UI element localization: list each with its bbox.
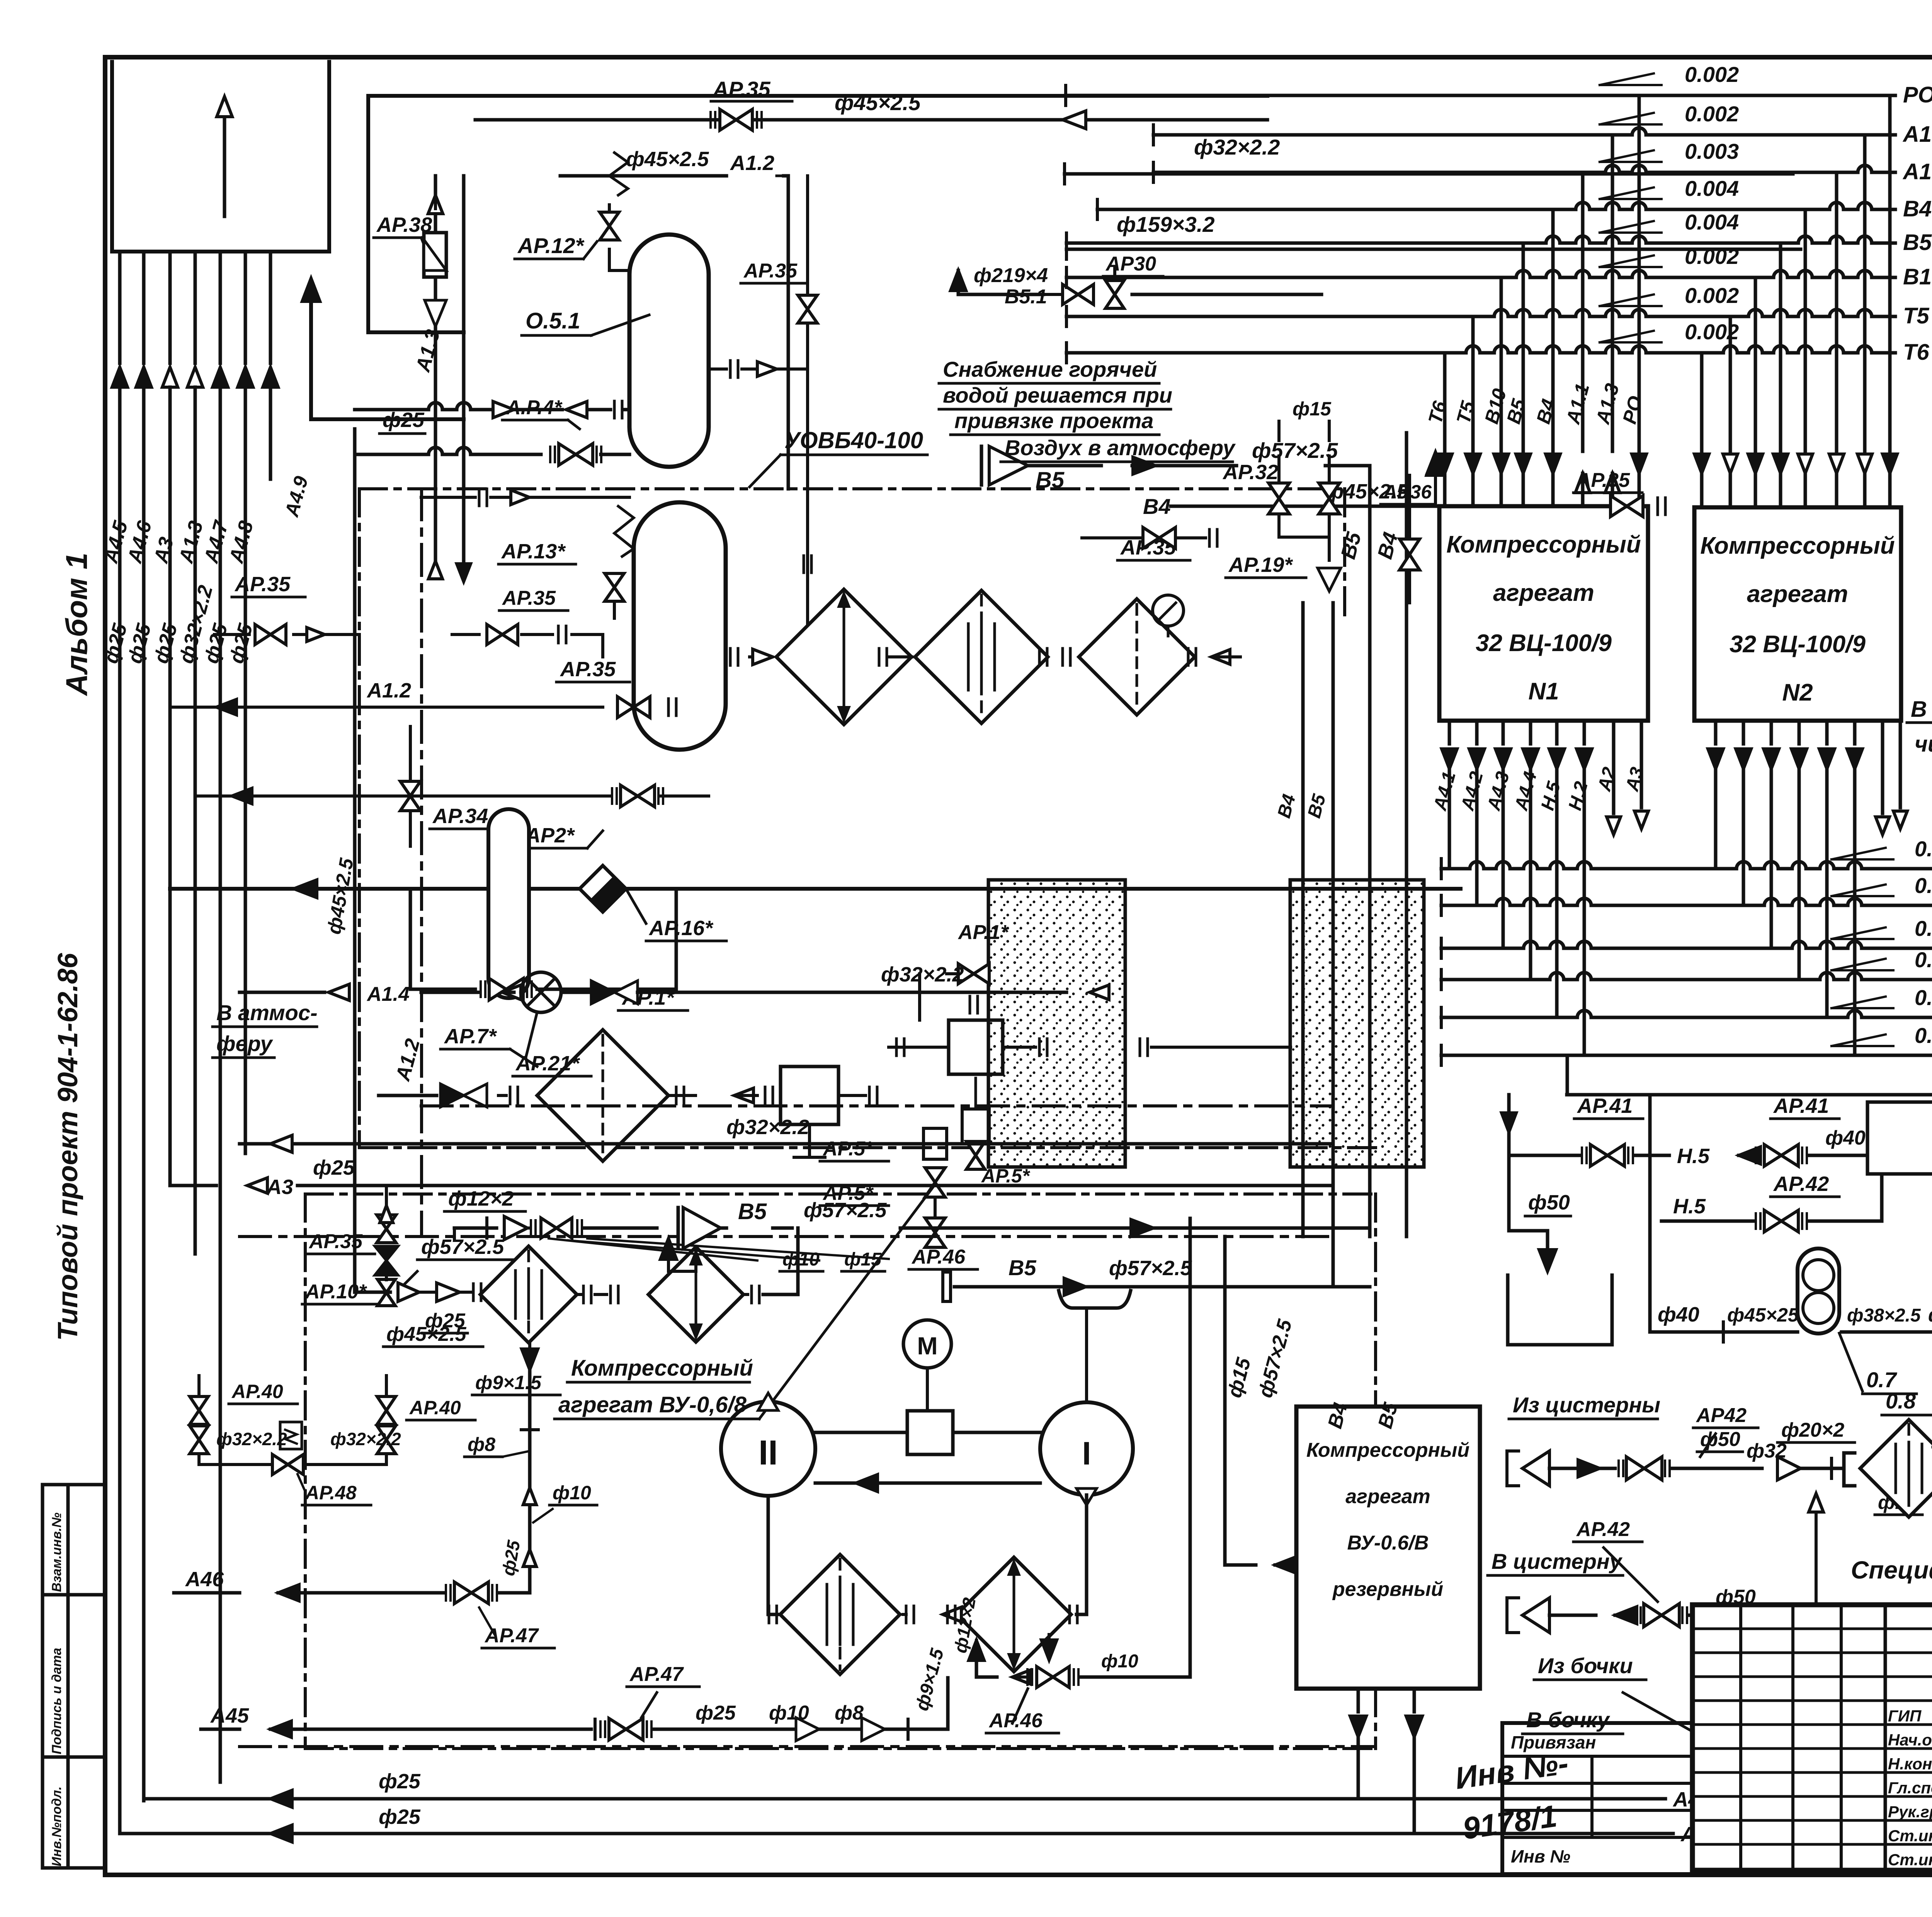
svg-text:Привязан: Привязан <box>1511 1732 1596 1752</box>
svg-text:ф50: ф50 <box>1528 1191 1570 1214</box>
wire atmo line <box>240 1135 1333 1152</box>
label AP.21 <box>513 1012 591 1076</box>
funnel 1 <box>1507 1428 1844 1486</box>
pump line L <box>1650 1249 1932 1342</box>
margin text vzam <box>49 1512 64 1592</box>
block reserve <box>1296 1407 1480 1689</box>
svg-text:резервный: резервный <box>1332 1578 1443 1601</box>
filter d2 <box>648 1228 798 1342</box>
labels f10 f15 AP46 <box>549 1238 978 1271</box>
svg-text:ф25: ф25 <box>425 1310 466 1332</box>
svg-text:А3: А3 <box>266 1175 293 1199</box>
svg-text:Инв №: Инв № <box>1511 1846 1570 1866</box>
wire B4 low2 <box>1333 1285 1370 1289</box>
valve AP.7 <box>379 1025 537 1107</box>
svg-text:АР.5*: АР.5* <box>822 1138 874 1160</box>
svg-text:ф25: ф25 <box>313 1156 355 1179</box>
svg-text:АР42: АР42 <box>1696 1404 1747 1427</box>
filter d1 <box>480 1246 618 1343</box>
svg-text:0.002: 0.002 <box>1685 244 1739 269</box>
svg-text:РО: РО <box>1903 82 1932 107</box>
text v atmosferu <box>213 1000 318 1058</box>
wire down AP46 <box>1012 1218 1190 1687</box>
svg-text:А1.2: А1.2 <box>730 151 774 175</box>
svg-text:ф9×1.5: ф9×1.5 <box>475 1372 542 1393</box>
valve A.P.4 <box>355 396 629 465</box>
text v cisternu <box>1488 1549 1623 1575</box>
svg-text:ф10: ф10 <box>1101 1651 1138 1672</box>
svg-text:А.Р.4*: А.Р.4* <box>505 396 563 419</box>
margin text inv <box>49 1786 64 1866</box>
circle I <box>1040 1402 1133 1505</box>
wire A1.2 dash <box>391 489 424 1237</box>
svg-text:феру: феру <box>216 1031 273 1056</box>
wire f159 <box>1066 212 1801 259</box>
label AP.47 b <box>627 1663 699 1718</box>
wire A46 <box>174 1568 530 1604</box>
wires B4B5 vert <box>1324 1400 1403 1431</box>
svg-text:ф20×2: ф20×2 <box>1781 1419 1844 1441</box>
label AP.48 <box>298 1474 371 1505</box>
label AP.47 a <box>479 1607 554 1648</box>
svg-text:ф25: ф25 <box>383 408 425 432</box>
svg-text:В атмос-: В атмос- <box>216 1000 318 1025</box>
small square low <box>781 1067 877 1157</box>
svg-text:АР.34: АР.34 <box>432 805 488 828</box>
wire izbochki <box>1534 1653 1646 1680</box>
svg-text:0.003: 0.003 <box>1685 139 1739 163</box>
svg-text:Из цистерны: Из цистерны <box>1513 1393 1660 1417</box>
valve AP.35 top <box>475 77 1182 130</box>
svg-text:0.002: 0.002 <box>1685 102 1739 126</box>
block N1 <box>1439 506 1648 721</box>
svg-text:А1.1: А1.1 <box>1902 159 1932 184</box>
wire B5 vert <box>1337 466 1370 1237</box>
svg-text:АР.19*: АР.19* <box>1228 553 1293 577</box>
wire f45 feed <box>323 429 390 1292</box>
svg-text:В канализацию: В канализацию <box>1911 697 1932 722</box>
svg-text:АР.46: АР.46 <box>911 1246 966 1268</box>
diag bochka <box>1623 1692 1719 1750</box>
svg-text:АР30: АР30 <box>1105 253 1156 275</box>
svg-text:I: I <box>1082 1435 1091 1471</box>
svg-text:АР.42: АР.42 <box>1576 1518 1630 1541</box>
svg-text:В4: В4 <box>1903 196 1932 221</box>
svg-text:ф15: ф15 <box>1293 398 1332 420</box>
valves AP40 pair <box>190 1376 475 1454</box>
svg-text:В цистерну: В цистерну <box>1492 1549 1623 1573</box>
heatex 0.8 <box>1844 1389 1932 1615</box>
label AP41 b <box>1770 1094 1839 1119</box>
valve AP.35 e <box>306 1186 396 1254</box>
valve AP.35 b2 <box>452 587 603 657</box>
wire vessel2 out <box>730 176 808 665</box>
left bus labels <box>99 518 258 666</box>
svg-text:ф38×2.5: ф38×2.5 <box>1847 1305 1921 1326</box>
svg-text:0.003: 0.003 <box>1915 873 1932 898</box>
text iz cisterny <box>1509 1393 1660 1419</box>
wire d2 top <box>660 1238 696 1271</box>
wire AP48 <box>199 1422 401 1475</box>
svg-text:ф32×2.2: ф32×2.2 <box>726 1116 809 1139</box>
svg-text:водой решается при: водой решается при <box>943 383 1172 407</box>
enclosure UOVB40-100 <box>359 427 1376 1148</box>
wire f219 arrow <box>951 264 1048 294</box>
wire A1.3 mid <box>412 176 464 564</box>
svg-text:АР36: АР36 <box>1383 481 1432 503</box>
svg-text:ф57×2.5: ф57×2.5 <box>1109 1257 1192 1280</box>
svg-text:ф32: ф32 <box>1928 1304 1932 1326</box>
dotted rect 2 <box>1290 880 1424 1167</box>
svg-text:N2: N2 <box>1782 679 1813 706</box>
svg-text:В5: В5 <box>738 1199 767 1224</box>
svg-text:АР2*: АР2* <box>525 824 575 847</box>
svg-text:Т5: Т5 <box>1903 303 1929 328</box>
svg-text:УОВБ40-100: УОВБ40-100 <box>784 427 923 453</box>
wire B5b vert <box>1274 603 1333 1287</box>
svg-text:Н.5: Н.5 <box>1677 1145 1710 1168</box>
label f25 low <box>422 1310 468 1333</box>
label AP42 c2 <box>1573 1518 1658 1602</box>
note spec <box>1851 1556 1932 1584</box>
svg-text:ф15: ф15 <box>844 1249 882 1270</box>
svg-text:0.006: 0.006 <box>1915 985 1932 1010</box>
svg-text:АР.48: АР.48 <box>304 1482 357 1504</box>
valve AP2 <box>195 785 709 848</box>
valve AP.16 <box>580 866 726 941</box>
N2 feed drops <box>1694 95 1897 507</box>
svg-text:ф219×4: ф219×4 <box>974 264 1048 287</box>
wire f45 arrow <box>1063 111 1267 129</box>
block N2 <box>1694 507 1901 721</box>
valve AP.35 riser <box>741 260 817 323</box>
circle II <box>721 1393 815 1496</box>
wire H5 AP41 <box>1592 1123 1619 1163</box>
svg-text:В бочку: В бочку <box>1526 1708 1611 1732</box>
svg-text:ф10: ф10 <box>553 1482 591 1504</box>
wire d2 loop <box>1049 1660 1121 1677</box>
funnel 2 <box>1507 1586 1932 1633</box>
inv no <box>1453 1746 1570 1846</box>
label f45x2.5 top <box>835 90 921 115</box>
svg-text:АР.1*: АР.1* <box>957 921 1009 944</box>
circle M <box>903 1320 951 1411</box>
stamp enclosure <box>112 62 329 252</box>
svg-text:АР.13*: АР.13* <box>501 540 566 563</box>
svg-text:А46: А46 <box>185 1568 224 1591</box>
svg-text:АР.35: АР.35 <box>234 573 291 596</box>
valve B5.1 <box>1005 253 1321 308</box>
svg-text:N1: N1 <box>1528 678 1559 705</box>
wire f32 low <box>634 1116 904 1148</box>
svg-text:В5.1: В5.1 <box>1005 286 1047 308</box>
stamp arrow <box>217 97 232 216</box>
svg-text:Альбом 1: Альбом 1 <box>60 553 94 696</box>
svg-text:В5: В5 <box>1903 230 1932 255</box>
title inner cols <box>1741 1605 1932 1870</box>
bus lines right <box>1066 62 1932 365</box>
check to vessel <box>355 401 629 418</box>
wire f40 drop <box>1566 1055 1569 1095</box>
svg-text:Ст.инж.: Ст.инж. <box>1888 1851 1932 1869</box>
title left rows <box>1692 1629 1932 1844</box>
N1 feed drops <box>1424 95 1647 506</box>
valve AP.34 <box>400 726 502 846</box>
svg-text:ф57×2.5: ф57×2.5 <box>804 1199 887 1222</box>
svg-text:0.003: 0.003 <box>1915 837 1932 861</box>
svg-text:32 ВЦ-100/9: 32 ВЦ-100/9 <box>1730 631 1866 658</box>
label AP42 <box>1770 1172 1839 1197</box>
wire A4.6 low <box>144 1770 1718 1811</box>
svg-text:АР.40: АР.40 <box>409 1397 461 1419</box>
wire f50 drop <box>1509 1155 1556 1271</box>
wire f25 mid <box>379 408 425 434</box>
svg-text:Компрессорный: Компрессорный <box>571 1356 753 1381</box>
svg-text:ф57×2.5: ф57×2.5 <box>421 1235 504 1259</box>
svg-text:АР.40: АР.40 <box>231 1381 283 1402</box>
svg-text:ф32×2.2: ф32×2.2 <box>881 963 964 986</box>
filter low left <box>537 1030 773 1161</box>
svg-text:А1.3: А1.3 <box>1902 122 1932 147</box>
svg-text:АР.32: АР.32 <box>1222 461 1278 484</box>
svg-text:ф57×2.5: ф57×2.5 <box>1252 438 1338 463</box>
svg-text:Из бочки: Из бочки <box>1538 1653 1633 1678</box>
AP41 valves row <box>1592 1163 1619 1163</box>
svg-text:АР.5*: АР.5* <box>981 1165 1031 1187</box>
AP42 pair low <box>1662 1619 1847 1754</box>
enclosure lower <box>305 1194 1376 1749</box>
svg-text:АР.41: АР.41 <box>1577 1094 1633 1118</box>
svg-text:Снабжение горячей: Снабжение горячей <box>943 357 1157 381</box>
label f15 ap32 <box>1279 398 1332 441</box>
wire A4.5 low <box>120 1805 1725 1846</box>
wire f12 line <box>444 1187 657 1240</box>
svg-text:II: II <box>759 1434 778 1472</box>
vessel NO2 <box>1867 1102 1932 1174</box>
left bus wires <box>120 479 245 1834</box>
label f15 c <box>1809 1468 1922 1615</box>
valve AP.13 <box>498 506 634 618</box>
margin text project <box>53 953 83 1341</box>
dotted rect 1 <box>988 880 1125 1167</box>
svg-text:0.004: 0.004 <box>1685 210 1739 234</box>
svg-text:Нач.отд.: Нач.отд. <box>1888 1731 1932 1749</box>
wire I down <box>1070 1495 1087 1623</box>
svg-text:АР.16*: АР.16* <box>648 917 714 940</box>
svg-text:ф8: ф8 <box>468 1434 495 1455</box>
svg-text:АР.47: АР.47 <box>629 1663 684 1686</box>
svg-text:М: М <box>917 1332 937 1360</box>
valve AP.12 <box>515 153 629 270</box>
svg-text:ф12×2: ф12×2 <box>448 1187 514 1210</box>
reserve feed B4 <box>1370 1237 1406 1264</box>
AP.5 valves left <box>820 1128 947 1247</box>
privyazan table <box>1502 1723 1692 1874</box>
svg-text:Гл.спец.: Гл.спец. <box>1888 1779 1932 1797</box>
snabzhenie text <box>939 357 1236 462</box>
valve AP.35 b <box>214 573 359 645</box>
svg-text:А1.4: А1.4 <box>366 983 410 1005</box>
wire A1.4 <box>240 963 1109 1012</box>
svg-text:АР.7*: АР.7* <box>444 1025 497 1048</box>
svg-text:Спецификацию оборудовиния и ар: Спецификацию оборудовиния и арматуры см.… <box>1851 1556 1932 1584</box>
svg-text:32 ВЦ-100/9: 32 ВЦ-100/9 <box>1476 630 1612 657</box>
wire II down <box>768 1496 777 1614</box>
svg-text:Компрессорный: Компрессорный <box>1446 531 1641 558</box>
svg-text:агрегат: агрегат <box>1493 580 1594 606</box>
wire H5 line <box>1502 1095 1867 1168</box>
svg-text:АР.21*: АР.21* <box>515 1052 580 1075</box>
square coupling <box>815 1411 1040 1454</box>
svg-text:В5: В5 <box>1036 468 1065 493</box>
svg-text:агрегат: агрегат <box>1747 581 1848 607</box>
wire B4 vert <box>1373 433 1406 1237</box>
valve AP.10 <box>302 1246 398 1306</box>
N2 bottom drops <box>1708 721 1907 1055</box>
fork symbol <box>1059 1291 1131 1402</box>
svg-text:0.002: 0.002 <box>1685 62 1739 87</box>
label 0.7 L <box>1839 1333 1917 1394</box>
wire H5 second <box>1662 1174 1882 1232</box>
svg-text:ф32×2.2: ф32×2.2 <box>330 1429 401 1449</box>
svg-text:ф45×25: ф45×25 <box>1727 1304 1799 1326</box>
pump line L2 <box>1839 1306 1932 1306</box>
wire B5 label <box>943 1255 1333 1301</box>
wire B5 f57 <box>981 438 1370 493</box>
svg-text:ф25: ф25 <box>696 1702 736 1724</box>
wire I-II arrow <box>815 1475 1040 1492</box>
svg-text:ф32×2.2: ф32×2.2 <box>216 1429 287 1449</box>
reserve drops <box>1350 1689 1422 1834</box>
svg-text:0.8: 0.8 <box>1886 1389 1916 1413</box>
svg-text:АР.41: АР.41 <box>1773 1094 1829 1118</box>
svg-text:В4: В4 <box>1143 494 1171 519</box>
svg-text:ф40: ф40 <box>1658 1303 1699 1326</box>
svg-text:ВУ-0.6/В: ВУ-0.6/В <box>1347 1532 1429 1554</box>
svg-text:АР.35: АР.35 <box>502 587 556 609</box>
svg-text:АР.35: АР.35 <box>743 260 798 282</box>
valve AP.35 c <box>172 658 676 718</box>
AP.32 valves <box>1222 456 1341 591</box>
svg-text:ф159×3.2: ф159×3.2 <box>1117 212 1215 236</box>
svg-text:Инв.№подл.: Инв.№подл. <box>49 1786 64 1866</box>
label f45 low <box>383 1323 483 1347</box>
svg-text:ф45×2.5: ф45×2.5 <box>626 148 709 171</box>
stamp drop wires <box>112 252 278 479</box>
svg-text:чистых стоков: чистых стоков <box>1915 731 1932 757</box>
svg-text:Рук.гр.: Рук.гр. <box>1888 1803 1932 1821</box>
label AP.19 <box>1226 553 1306 578</box>
svg-text:ф32×2.2: ф32×2.2 <box>1194 135 1280 159</box>
svg-text:ф40: ф40 <box>1825 1127 1866 1149</box>
label f57 low <box>402 1235 518 1287</box>
svg-text:Компрессорный: Компрессорный <box>1306 1439 1469 1461</box>
wire top from stamp <box>368 96 1267 332</box>
svg-text:АР.35: АР.35 <box>1576 469 1630 492</box>
label AP41 a <box>1574 1094 1643 1119</box>
svg-text:АР.12*: АР.12* <box>517 233 585 258</box>
arrow B5 up <box>1427 452 1444 506</box>
svg-text:А1.2: А1.2 <box>366 679 411 702</box>
svg-text:привязке проекта: привязке проекта <box>954 408 1153 433</box>
valve AP36 <box>1381 475 1435 603</box>
silencer B5 <box>678 1199 1370 1249</box>
svg-text:ф25: ф25 <box>379 1770 421 1793</box>
AP.1 cluster mid <box>889 921 1291 1187</box>
wire A4.9 <box>281 278 464 520</box>
svg-text:агрегат: агрегат <box>1345 1485 1430 1508</box>
wire v bochku <box>1522 1708 1623 1734</box>
svg-text:Н.контр.: Н.контр. <box>1888 1755 1932 1773</box>
title names <box>1888 1705 1932 1869</box>
wire dash mid <box>240 1235 1333 1238</box>
svg-text:0.006: 0.006 <box>1915 1023 1932 1048</box>
wire B4 B5 to reserve <box>1370 1238 1406 1263</box>
wire B5 low <box>951 1286 1370 1287</box>
label AP.46 b <box>986 1689 1059 1733</box>
tank left <box>1508 1275 1612 1345</box>
wire dash low <box>240 1745 1376 1748</box>
wire f9 vertical <box>464 1343 597 1593</box>
margin text album <box>60 553 94 696</box>
wire A3 <box>170 1156 1333 1199</box>
arrows under d2 <box>950 1596 1057 1677</box>
margin text podpis <box>49 1648 64 1754</box>
svg-text:Взам.инв.№: Взам.инв.№ <box>49 1512 64 1592</box>
svg-text:АР.42: АР.42 <box>1773 1172 1829 1196</box>
svg-text:В5: В5 <box>1009 1255 1036 1280</box>
pump L out <box>1839 1304 1932 1339</box>
wire A13 ends <box>429 561 471 582</box>
wire f15 b <box>1182 1298 1183 1376</box>
svg-text:ГИП: ГИП <box>1888 1707 1922 1725</box>
svg-text:0.003: 0.003 <box>1915 947 1932 972</box>
wire vessel1 out <box>709 361 808 378</box>
wire row 1287 <box>421 489 629 506</box>
wire f32x2.2 <box>1065 135 1793 184</box>
label f20x2 a <box>1777 1419 1855 1442</box>
svg-text:Воздух в атмосферу: Воздух в атмосферу <box>1005 435 1236 460</box>
chain into filter <box>398 1283 481 1301</box>
svg-text:О.5.1: О.5.1 <box>526 308 580 333</box>
svg-text:ф8: ф8 <box>835 1702 864 1724</box>
filter chain mid <box>776 556 1240 725</box>
svg-text:В10: В10 <box>1903 264 1932 289</box>
svg-text:Т6: Т6 <box>1903 340 1929 365</box>
vessel O.5.1 <box>522 235 709 467</box>
svg-text:Компрессорный: Компрессорный <box>1700 532 1895 559</box>
arrow into reserve <box>1225 1237 1296 1573</box>
svg-text:ф50: ф50 <box>1700 1428 1740 1451</box>
svg-text:АР.35: АР.35 <box>560 658 616 681</box>
vessel2 <box>634 502 726 750</box>
wire A1.2 label <box>560 148 788 489</box>
wire main lower <box>170 880 1461 898</box>
title block frame <box>1692 1605 1932 1870</box>
svg-text:агрегат ВУ-0,6/8: агрегат ВУ-0,6/8 <box>558 1392 747 1417</box>
arrow B5 up2 <box>1427 452 1444 506</box>
text v kanal 2 <box>1907 697 1932 757</box>
svg-text:А45: А45 <box>210 1704 249 1727</box>
collector lines <box>1441 837 1932 1067</box>
vessel3 <box>488 809 529 998</box>
svg-text:Подпись и дата: Подпись и дата <box>49 1648 64 1754</box>
valve AP.1 main <box>410 889 688 1010</box>
svg-text:0.004: 0.004 <box>1685 176 1739 201</box>
svg-text:Типовой проект 904-1-62.86: Типовой проект 904-1-62.86 <box>53 953 83 1341</box>
wire A45 <box>201 1646 948 1741</box>
svg-text:0.7: 0.7 <box>1866 1368 1898 1392</box>
